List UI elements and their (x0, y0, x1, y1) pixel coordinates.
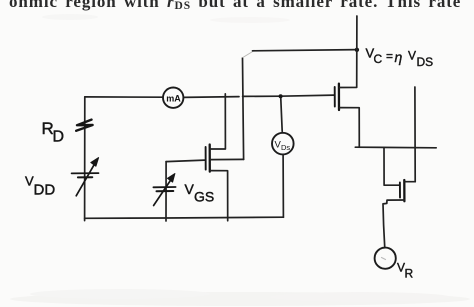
wire: M3 gate tie step (384, 148, 399, 186)
transistor M3 channel bar (403, 180, 405, 201)
svg-text:DD: DD (34, 182, 56, 199)
wire: VGS branch vertical (165, 162, 167, 221)
svg-text:η: η (395, 49, 403, 65)
voltmeter VDS branch upper wire (281, 96, 283, 131)
svg-text:GS: GS (194, 189, 214, 205)
wire: M1 bulk lead (211, 158, 244, 160)
wire: M2 source lead and drop (340, 108, 360, 147)
wire: top rail from left branch to mA meter (85, 96, 163, 98)
label VR (397, 261, 414, 281)
svg-text:R: R (405, 267, 414, 281)
wire: faint link riser to VC wire (243, 51, 254, 58)
label VDD (25, 174, 55, 199)
source VGS (variable, bars + arrow) (153, 174, 175, 206)
wire: bottom rail (85, 217, 284, 218)
terminal VR (375, 248, 396, 269)
label VGS (185, 181, 215, 205)
svg-text:DS: DS (417, 55, 434, 69)
svg-text:V: V (408, 49, 416, 63)
wire: M3 source lead down to VR (383, 200, 405, 247)
wire: M2 drain lead and riser up (340, 16, 357, 88)
svg-text:mA: mA (166, 94, 181, 104)
label RD (42, 119, 65, 146)
resistor RD (76, 120, 92, 131)
label VC = eta VDS (366, 46, 434, 70)
wire: VC node horizontal (253, 50, 358, 51)
wire: left vertical branch (VDD + RD) (84, 97, 86, 221)
voltmeter VDS (272, 133, 294, 155)
wire: M1 drain lead up to top rail (211, 94, 226, 149)
wire: VGS top to gate of M1 (166, 160, 205, 162)
wire: M3 drain lead (405, 181, 415, 183)
wire: bulk riser crossing top rail (243, 58, 244, 159)
transistor M1 channel bar (209, 145, 211, 172)
svg-text:D: D (53, 129, 65, 146)
transistor M2 (top right) gate bar (334, 87, 336, 107)
wire: right riser through node to M3 drain (414, 87, 416, 182)
source VDD (variable, bars + arrow) (72, 158, 99, 196)
svg-text:V: V (185, 181, 195, 197)
transistor M1 (device under test) gate bar (205, 147, 207, 170)
wire: top rail from mA meter to gate of M2, gap at bulk riser (184, 95, 334, 97)
svg-text:C: C (374, 52, 383, 66)
voltmeter VDS branch lower wire (282, 155, 284, 218)
wire: node between M2 source and M3 (355, 146, 436, 149)
wire: M1 source lead down to bottom rail (211, 171, 228, 221)
cropped paragraph text line (9, 0, 474, 12)
svg-text:Ds: Ds (281, 143, 290, 152)
ammeter mA (163, 88, 183, 108)
node junction dot at VDS branch (279, 94, 283, 98)
svg-text:=: = (386, 49, 393, 63)
transistor M2 channel bar (338, 84, 340, 110)
node VC junction dot (355, 48, 359, 52)
transistor M3 gate bar (399, 183, 401, 198)
